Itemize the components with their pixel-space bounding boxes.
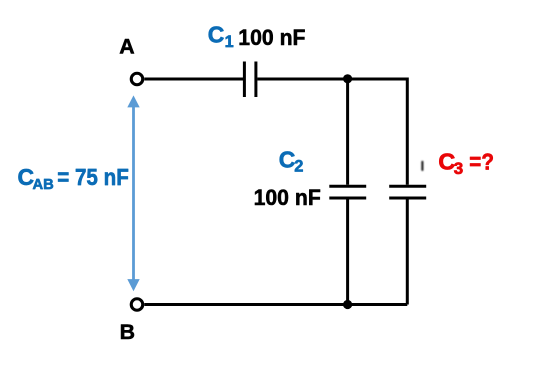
wire C2 branch top bbox=[346, 79, 349, 185]
capacitor C2 bottom plate bbox=[329, 197, 366, 200]
svg-text:AB: AB bbox=[33, 177, 55, 193]
svg-text:1: 1 bbox=[225, 33, 234, 51]
svg-text:C: C bbox=[208, 21, 225, 47]
capacitor C3 bottom plate bbox=[389, 197, 426, 200]
svg-text:A: A bbox=[119, 35, 134, 59]
capacitor C1 right plate bbox=[254, 62, 257, 98]
capacitor C3 top plate bbox=[389, 185, 426, 188]
svg-text:C: C bbox=[279, 146, 296, 172]
svg-text:2: 2 bbox=[294, 158, 303, 176]
wire C2 branch bottom bbox=[346, 199, 349, 304]
junction dot top node bbox=[343, 74, 352, 83]
wire C3 branch bottom bbox=[406, 199, 409, 304]
arrow head up bbox=[127, 95, 139, 107]
terminal node A bbox=[131, 73, 143, 85]
svg-text:100 nF: 100 nF bbox=[238, 25, 305, 50]
terminal node B bbox=[131, 299, 143, 311]
svg-text:=?: =? bbox=[469, 148, 494, 174]
arrow shaft CAB measurement bbox=[132, 107, 135, 281]
arrow head down bbox=[127, 279, 139, 291]
capacitor C1 left plate bbox=[243, 62, 246, 98]
wire top-right: C1 to right corner, down to C3 bbox=[257, 79, 407, 185]
junction dot bottom node bbox=[343, 300, 352, 309]
capacitor C2 top plate bbox=[329, 185, 366, 188]
wire bottom: node B to right corner bbox=[144, 303, 407, 306]
svg-text:= 75 nF: = 75 nF bbox=[57, 164, 129, 190]
wire top-left: node A to C1 bbox=[144, 78, 243, 81]
svg-text:100 nF: 100 nF bbox=[254, 185, 321, 210]
svg-text:B: B bbox=[120, 320, 135, 344]
svg-text:3: 3 bbox=[454, 159, 463, 178]
